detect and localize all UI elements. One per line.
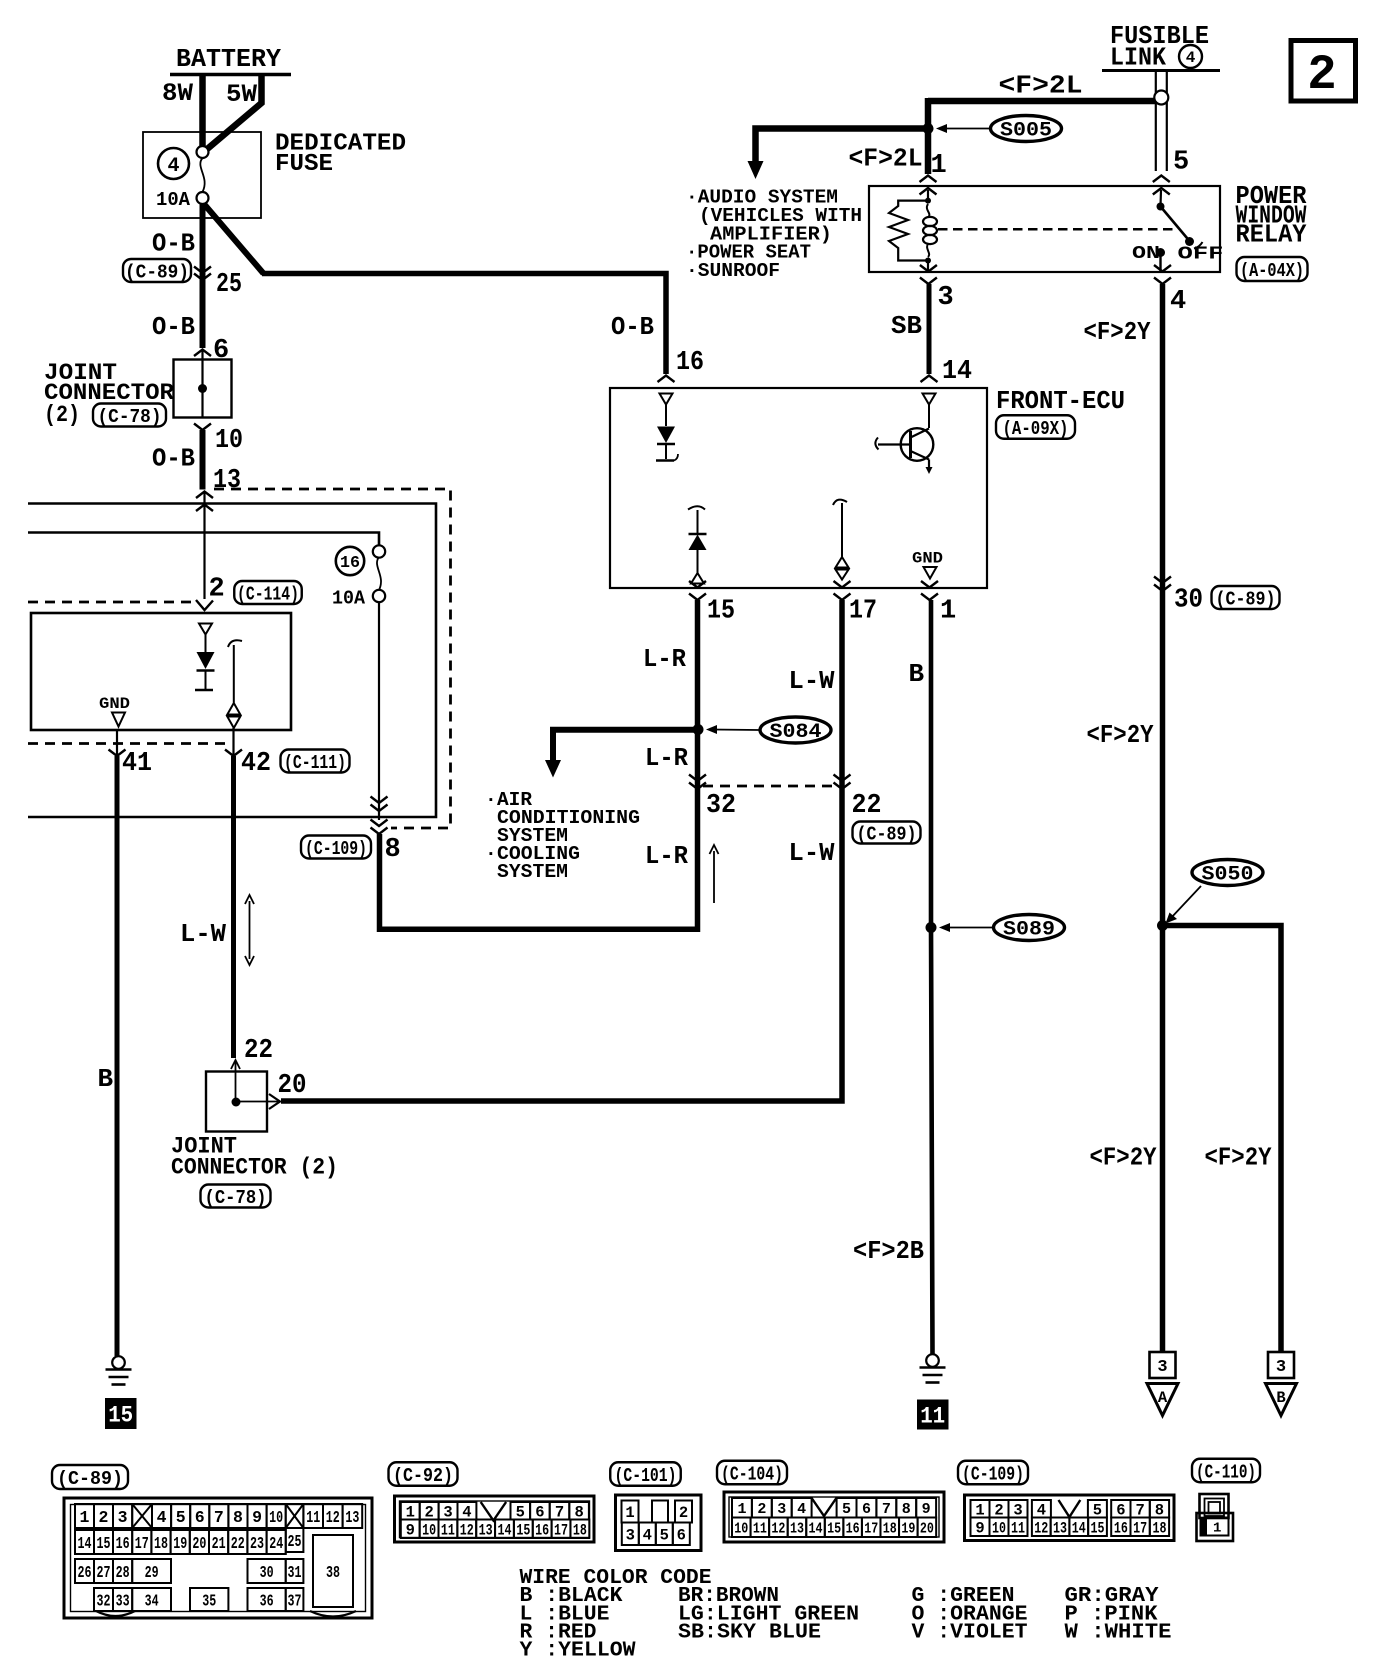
svg-text:(C-89): (C-89) — [125, 261, 189, 283]
terminal 3-A — [1150, 1352, 1176, 1378]
svg-text:13: 13 — [213, 466, 241, 496]
svg-text:FRONT-ECU: FRONT-ECU — [996, 386, 1125, 416]
wire (F)2Y branch right — [1163, 926, 1282, 1353]
svg-text:5: 5 — [176, 1508, 186, 1527]
C-109 pin 8 label — [301, 836, 371, 859]
svg-text:28: 28 — [116, 1563, 130, 1582]
svg-text:33: 33 — [116, 1591, 130, 1610]
svg-text:S089: S089 — [1003, 919, 1055, 942]
svg-text:L-W: L-W — [789, 666, 835, 696]
svg-text:16: 16 — [340, 554, 360, 573]
svg-text:12: 12 — [460, 1521, 474, 1539]
svg-text:16: 16 — [1114, 1519, 1128, 1537]
svg-text:SB: SB — [891, 311, 922, 341]
svg-text:·: · — [485, 843, 497, 865]
svg-text:15: 15 — [97, 1534, 111, 1553]
svg-text:(C-89): (C-89) — [857, 823, 917, 845]
svg-text:12: 12 — [771, 1521, 785, 1537]
svg-text:2: 2 — [209, 575, 225, 605]
svg-text:18: 18 — [154, 1534, 168, 1553]
splice S089 — [926, 922, 937, 933]
svg-text:5: 5 — [1173, 148, 1189, 178]
wire 8W from battery — [199, 74, 206, 147]
svg-text:1: 1 — [1213, 1521, 1221, 1537]
ground ref 11 black box — [917, 1400, 949, 1430]
svg-text:30: 30 — [260, 1563, 274, 1582]
svg-text:B: B — [909, 659, 925, 689]
svg-text:1: 1 — [80, 1508, 90, 1527]
wire L-W pin 17 to joint connector pin 20 — [281, 600, 842, 1101]
svg-text:V :VIOLET: V :VIOLET — [912, 1622, 1028, 1645]
svg-text:S084: S084 — [770, 721, 822, 744]
wire SB relay to FRONT-ECU pin 14 — [927, 284, 932, 374]
svg-text:27: 27 — [97, 1563, 111, 1582]
fusible link hollow wire to relay pin 5 — [1155, 72, 1157, 171]
svg-text:15: 15 — [707, 597, 735, 627]
svg-text:3: 3 — [118, 1508, 128, 1527]
svg-text:5W: 5W — [226, 80, 257, 109]
svg-text:2: 2 — [99, 1508, 109, 1527]
connector C-92 pinout — [395, 1496, 595, 1542]
svg-text:1: 1 — [737, 1501, 746, 1518]
svg-text:SYSTEM: SYSTEM — [497, 861, 568, 883]
svg-text:10: 10 — [422, 1521, 436, 1539]
svg-text:8: 8 — [233, 1508, 243, 1527]
component box left (partial) — [31, 613, 291, 730]
svg-text:<F>2L: <F>2L — [849, 144, 923, 174]
wire O-B to pin 13 — [200, 430, 206, 490]
svg-text:O-B: O-B — [611, 312, 654, 342]
svg-text:42: 42 — [241, 749, 271, 779]
svg-text:SB:SKY BLUE: SB:SKY BLUE — [678, 1622, 821, 1645]
splice S050 — [1192, 860, 1263, 886]
svg-text:4: 4 — [643, 1526, 652, 1544]
svg-text:19: 19 — [901, 1521, 915, 1537]
svg-text:<F>2Y: <F>2Y — [1205, 1143, 1272, 1173]
svg-text:32: 32 — [706, 791, 736, 821]
wire L-R arrow branch to air conditioning — [553, 730, 696, 761]
svg-text:17: 17 — [554, 1521, 568, 1539]
svg-text:S050: S050 — [1202, 864, 1254, 887]
svg-text:17: 17 — [1133, 1519, 1147, 1537]
svg-text:L-W: L-W — [180, 919, 226, 949]
svg-text:B: B — [98, 1064, 114, 1094]
svg-text:4: 4 — [157, 1508, 167, 1527]
fuse (16) 10A — [373, 545, 385, 557]
svg-text:26: 26 — [78, 1563, 92, 1582]
svg-text:<F>2L: <F>2L — [999, 71, 1083, 101]
svg-text:(C-92): (C-92) — [393, 1465, 453, 1487]
svg-text:20: 20 — [920, 1521, 934, 1537]
front-ecu pin 14 transistor — [923, 394, 936, 405]
big page number 2 box — [1291, 41, 1356, 102]
wire (F)2L thick — [928, 98, 1155, 105]
front-ecu pin 17 exit — [834, 581, 851, 588]
connector C-101 label — [610, 1462, 681, 1486]
svg-text:7: 7 — [214, 1508, 224, 1527]
svg-text:B: B — [1276, 1389, 1285, 1407]
svg-text:11: 11 — [306, 1508, 320, 1527]
svg-text:RELAY: RELAY — [1236, 220, 1307, 250]
relay pin 3 exit — [927, 261, 929, 272]
svg-text:25: 25 — [288, 1532, 302, 1551]
svg-text:11: 11 — [753, 1521, 767, 1537]
connector C-109 label — [958, 1461, 1028, 1485]
front-ecu pin 1 exit — [921, 581, 938, 588]
power window relay A-04X box — [869, 186, 1220, 272]
wire O-B diagonal branch to FRONT-ECU pin 16 — [204, 204, 264, 274]
svg-text:2: 2 — [757, 1501, 766, 1518]
svg-text:22: 22 — [231, 1534, 245, 1553]
svg-text:41: 41 — [122, 749, 152, 779]
svg-text:(A-04X): (A-04X) — [1240, 260, 1304, 282]
svg-text:4: 4 — [797, 1501, 806, 1518]
svg-text:3: 3 — [1276, 1358, 1286, 1377]
wire (F)2Y relay pin 4 down — [1160, 284, 1166, 1352]
svg-text:13: 13 — [1053, 1519, 1067, 1537]
dashed boundary box — [214, 489, 451, 828]
svg-text:35: 35 — [202, 1591, 216, 1610]
svg-text:·SUNROOF: ·SUNROOF — [686, 260, 780, 282]
svg-text:7: 7 — [882, 1501, 891, 1518]
relay resistor — [889, 201, 928, 261]
svg-text:32: 32 — [97, 1591, 111, 1610]
svg-text:14: 14 — [942, 357, 972, 387]
svg-text:22: 22 — [852, 791, 882, 821]
svg-text:10: 10 — [992, 1519, 1006, 1537]
svg-text:9: 9 — [922, 1501, 931, 1518]
connector C-104 pinout — [724, 1492, 944, 1542]
svg-text:L-W: L-W — [789, 838, 835, 868]
svg-text:(C-110): (C-110) — [1196, 1461, 1256, 1483]
connector C-89 label — [52, 1465, 128, 1489]
svg-text:22: 22 — [244, 1036, 273, 1066]
connector C-111 pin 42 — [232, 728, 234, 756]
svg-text:10A: 10A — [332, 588, 366, 610]
svg-text:S005: S005 — [1000, 120, 1052, 143]
svg-text:GND: GND — [912, 550, 943, 568]
wire bus line to fuse 16 — [28, 533, 379, 546]
svg-text:21: 21 — [212, 1534, 226, 1553]
svg-text:4: 4 — [167, 155, 179, 178]
wire B pin 41 down — [115, 756, 120, 1356]
svg-text:CONNECTOR (2): CONNECTOR (2) — [171, 1155, 338, 1181]
svg-text:6: 6 — [195, 1508, 205, 1527]
svg-text:6: 6 — [213, 336, 229, 366]
connector C-111 pin 41 — [116, 730, 118, 756]
connector C-89 pinout — [64, 1498, 372, 1618]
svg-text:36: 36 — [260, 1591, 274, 1610]
svg-text:2: 2 — [1307, 47, 1336, 103]
svg-text:10: 10 — [734, 1521, 748, 1537]
wire L-R pin 15 to C-109 pin 8 — [380, 600, 698, 929]
svg-text:14: 14 — [78, 1534, 92, 1553]
svg-text:13: 13 — [479, 1521, 493, 1539]
svg-text:4: 4 — [1170, 287, 1186, 317]
svg-text:3: 3 — [938, 283, 954, 313]
front-ecu pin 16 diode — [660, 394, 673, 405]
svg-text:23: 23 — [250, 1534, 264, 1553]
svg-text:1: 1 — [931, 151, 947, 181]
svg-text:(C-89): (C-89) — [57, 1468, 123, 1490]
svg-text:10: 10 — [215, 426, 243, 456]
svg-text:14: 14 — [497, 1521, 511, 1539]
svg-text:16: 16 — [846, 1521, 860, 1537]
svg-text:(C-78): (C-78) — [205, 1187, 267, 1209]
svg-text:12: 12 — [326, 1508, 340, 1527]
wire O-B fuse to joint connector — [200, 204, 206, 348]
splice S005 — [923, 123, 934, 134]
svg-text:LINK: LINK — [1110, 43, 1166, 73]
svg-text:24: 24 — [269, 1534, 283, 1553]
svg-text:8: 8 — [902, 1501, 911, 1518]
svg-text:<F>2B: <F>2B — [853, 1236, 924, 1266]
svg-text:37: 37 — [288, 1591, 302, 1610]
wire B front-ecu pin 1 down to ground — [931, 600, 933, 1354]
svg-text:8W: 8W — [162, 79, 193, 108]
joint connector (2) C-78 upper — [194, 350, 211, 357]
svg-text:34: 34 — [145, 1591, 159, 1610]
svg-text:31: 31 — [288, 1563, 302, 1582]
svg-text:18: 18 — [883, 1521, 897, 1537]
svg-text:(C-104): (C-104) — [721, 1463, 783, 1485]
svg-text:17: 17 — [135, 1534, 149, 1553]
front-ecu diode to pin 15 — [688, 506, 705, 509]
svg-text:14: 14 — [809, 1521, 823, 1537]
double arrow on L-W wire — [249, 901, 251, 959]
switch lever inside left box — [228, 640, 242, 647]
splice S084 — [693, 724, 704, 735]
wire fuse 16 down to connector C-109 pin 8 — [378, 602, 380, 820]
svg-text:(2): (2) — [44, 402, 80, 428]
relay pin 1 entry — [920, 176, 937, 183]
svg-text:(C-111): (C-111) — [284, 752, 346, 774]
svg-text:16: 16 — [116, 1534, 130, 1553]
connector C-109 pinout — [965, 1495, 1175, 1541]
svg-text:A: A — [1158, 1389, 1168, 1407]
connector C-101 pinout — [616, 1495, 702, 1551]
relay dashed actuation line — [938, 228, 1176, 231]
svg-text:10A: 10A — [156, 189, 191, 211]
svg-text:(C-109): (C-109) — [305, 838, 367, 860]
svg-text:1: 1 — [940, 597, 956, 627]
wire 5W from battery — [206, 74, 262, 150]
svg-text:10: 10 — [269, 1508, 283, 1527]
svg-text:20: 20 — [278, 1071, 307, 1101]
svg-text:13: 13 — [345, 1508, 359, 1527]
svg-text:9: 9 — [406, 1521, 415, 1539]
svg-text:13: 13 — [790, 1521, 804, 1537]
svg-text:8: 8 — [385, 835, 401, 865]
relay pin 5 entry — [1153, 176, 1170, 183]
svg-text:16: 16 — [676, 348, 704, 378]
svg-text:5: 5 — [842, 1501, 851, 1518]
svg-text:(C-89): (C-89) — [1216, 588, 1276, 610]
svg-text:L-R: L-R — [645, 743, 688, 773]
svg-text:11: 11 — [441, 1521, 455, 1539]
svg-text:Y :YELLOW: Y :YELLOW — [520, 1640, 636, 1663]
svg-text:15: 15 — [827, 1521, 841, 1537]
svg-text:4: 4 — [1186, 49, 1196, 67]
svg-text:14: 14 — [1072, 1519, 1086, 1537]
connector C-104 label — [717, 1461, 787, 1485]
svg-text:(C-101): (C-101) — [615, 1465, 677, 1487]
connector C-114 pins 13-2 wire — [196, 492, 213, 499]
connector C-110 pinout — [1200, 1494, 1229, 1518]
svg-text:BATTERY: BATTERY — [176, 44, 281, 74]
svg-text:11: 11 — [920, 1404, 945, 1430]
svg-text:19: 19 — [173, 1534, 187, 1553]
svg-text:OFF: OFF — [1178, 244, 1224, 265]
svg-text:O-B: O-B — [152, 312, 195, 342]
svg-text:30: 30 — [1174, 586, 1203, 616]
svg-text:3: 3 — [626, 1526, 635, 1544]
svg-text:(C-114): (C-114) — [237, 583, 299, 605]
svg-text:16: 16 — [535, 1521, 549, 1539]
relay pin 4 exit — [1154, 265, 1171, 272]
connector C-89 pin 25 — [123, 259, 191, 282]
svg-text:FUSE: FUSE — [275, 151, 333, 178]
svg-text:20: 20 — [192, 1534, 206, 1553]
svg-text:6: 6 — [677, 1526, 686, 1544]
front-ecu A-09X box — [610, 388, 987, 588]
ground for wire B left — [112, 1356, 125, 1369]
svg-text:12: 12 — [1034, 1519, 1048, 1537]
svg-text:17: 17 — [849, 597, 877, 627]
svg-text:3: 3 — [777, 1501, 786, 1518]
svg-text:O-B: O-B — [152, 444, 195, 474]
svg-text:6: 6 — [862, 1501, 871, 1518]
svg-text:18: 18 — [573, 1521, 587, 1539]
svg-text:29: 29 — [145, 1563, 159, 1582]
svg-text:9: 9 — [975, 1519, 984, 1537]
wire bus line upper — [28, 504, 436, 818]
svg-text:O-B: O-B — [152, 229, 195, 259]
svg-text:15: 15 — [108, 1403, 133, 1429]
relay switch — [1157, 203, 1165, 211]
up arrow beside L-R wire — [713, 851, 715, 903]
front-ecu element to pin 17 — [833, 500, 847, 505]
svg-text:38: 38 — [326, 1564, 340, 1583]
ground ref 15 black box — [105, 1398, 137, 1429]
connector C-89 pins 32-22 dashed — [689, 775, 706, 782]
svg-text:3: 3 — [1157, 1358, 1167, 1377]
svg-text:(A-09X): (A-09X) — [1003, 418, 1069, 440]
svg-text:15: 15 — [516, 1521, 530, 1539]
svg-text:25: 25 — [216, 270, 242, 300]
connector C-110 label — [1192, 1459, 1260, 1483]
svg-text:L-R: L-R — [645, 841, 688, 871]
dedicated fuse (4) 10A — [143, 132, 261, 218]
svg-text:(C-78): (C-78) — [98, 406, 162, 428]
wire (F)2L arrow branch to audio system — [756, 129, 931, 163]
svg-text:GND: GND — [99, 695, 130, 713]
svg-text:11: 11 — [1011, 1519, 1025, 1537]
svg-text:ON: ON — [1132, 243, 1160, 264]
ground for wire B right — [926, 1354, 939, 1367]
svg-text:18: 18 — [1152, 1519, 1166, 1537]
svg-text:<F>2Y: <F>2Y — [1084, 317, 1151, 347]
relay coil — [925, 198, 931, 204]
connector C-92 label — [389, 1462, 458, 1486]
dashed wire to pin 2 — [28, 601, 197, 604]
svg-text:<F>2Y: <F>2Y — [1087, 720, 1154, 750]
svg-text:W :WHITE: W :WHITE — [1065, 1622, 1172, 1645]
svg-text:9: 9 — [252, 1508, 262, 1527]
front-ecu pin 15 exit — [689, 581, 706, 588]
svg-text:15: 15 — [1091, 1519, 1105, 1537]
svg-text:17: 17 — [864, 1521, 878, 1537]
joint connector (2) C-78 lower — [206, 1072, 267, 1132]
svg-text:2: 2 — [679, 1504, 688, 1522]
svg-text:<F>2Y: <F>2Y — [1090, 1143, 1157, 1173]
diode inside left box — [199, 624, 212, 635]
svg-text:L-R: L-R — [643, 644, 686, 674]
svg-text:·: · — [485, 789, 497, 811]
svg-text:1: 1 — [625, 1504, 634, 1522]
dashed connector line C-111 — [28, 742, 226, 745]
svg-text:5: 5 — [660, 1526, 669, 1544]
terminal 3-B — [1268, 1352, 1294, 1378]
wire L-W pin 42 down — [231, 756, 236, 1058]
svg-text:(C-109): (C-109) — [962, 1463, 1024, 1485]
